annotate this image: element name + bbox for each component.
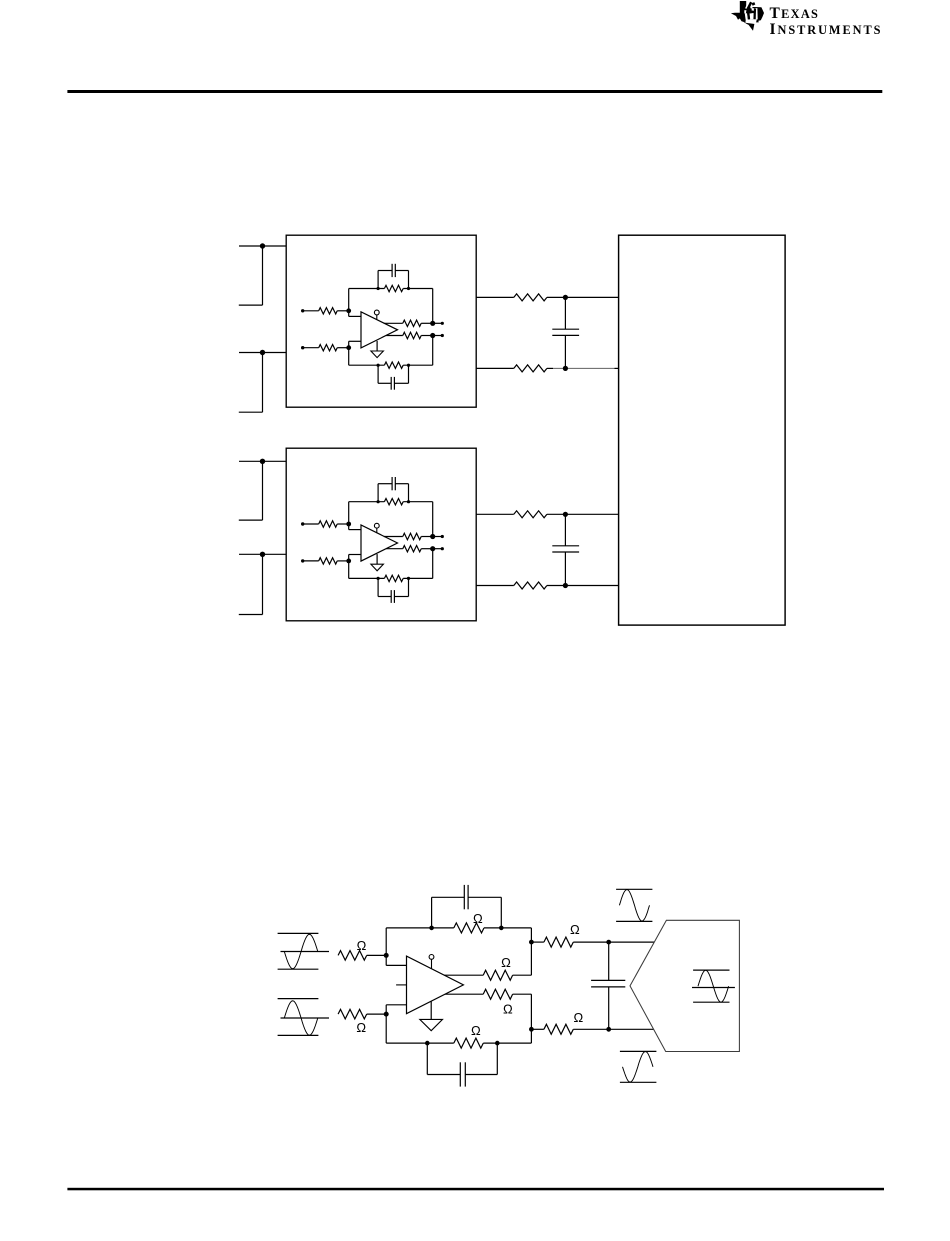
svg-text:Ω: Ω [501,955,511,970]
wire [386,1005,407,1014]
ADC block box U3 [619,235,786,625]
node: upper ADC input junction [606,940,654,945]
inverting input dash [396,984,406,986]
signal source VIN+ (sine symbol) [278,933,329,969]
wire (left rail) [385,928,387,1043]
feedback capacitor CF1 B (top) [378,477,408,502]
ground [371,554,384,571]
svg-text:TEXAS: TEXAS [770,5,820,22]
wire (right feedback rail) [432,502,434,579]
wire [349,502,362,530]
output resistor RO2 B (lower) [386,546,433,552]
ADC symbol (chevron block) [630,920,739,1051]
series resistor RS1 B (to ADC, upper) [476,511,618,518]
node: lower summing junction A [346,345,351,350]
signal source VIN- (sine symbol) [278,999,329,1036]
feedback capacitor CF1 A (top) [378,264,408,289]
svg-text:INSTRUMENTS: INSTRUMENTS [770,21,883,38]
node: upper output junction B [430,534,444,539]
power/enable pin circle [374,310,379,320]
wire [349,289,362,317]
wire [349,341,362,365]
node A upper ADC input [563,295,568,300]
op-amp U1 A (fully differential) [361,312,398,348]
node: upper output tap [529,940,534,945]
feedback resistor RF2 B (bottom) [349,575,433,581]
series resistor RS2 A (to ADC, lower) [476,365,618,372]
svg-text:Ω: Ω [473,911,483,926]
power/enable pin circle [374,523,379,533]
node B upper ADC input [563,512,568,517]
input terminal AM [239,350,286,412]
input terminal BP [239,459,286,521]
feedback resistor RF bottom with label [386,1023,531,1048]
logo: TI Texas-map icon [731,1,764,31]
output resistor RO1 A (upper) [384,320,433,326]
top rule [67,90,882,93]
op-amp A1 (fully differential) [407,956,464,1014]
feedback capacitor CF2 B (bottom) [378,578,408,603]
resistor RG2 B (lower input) [301,558,349,564]
wire (right feedback rail) [432,289,434,366]
series resistor RS lower with label [531,1010,608,1034]
node: lower output junction A [430,333,444,338]
wire [386,955,407,965]
node B lower ADC input [563,583,568,588]
power/enable pin circle [429,955,434,969]
svg-text:Ω: Ω [471,1023,481,1038]
node A lower ADC input [563,366,568,371]
shunt capacitor CS B [552,514,579,585]
svg-text:Ω: Ω [356,1020,366,1035]
node: lower output tap [529,1027,534,1032]
node: lower summing junction [384,1012,389,1017]
input terminal AP [239,243,286,305]
feedback capacitor CF2 A (bottom) [378,365,408,390]
wire (right rail) [530,928,532,1043]
svg-text:Ω: Ω [570,922,580,937]
op-amp U1 B (fully differential) [361,525,398,561]
series resistor RS1 A (to ADC, upper) [476,294,618,301]
feedback resistor RF1 A (top) [349,285,433,291]
node: upper output junction A [430,321,444,326]
feedback resistor RF1 B (top) [349,499,433,505]
input terminal BM [239,552,286,615]
output resistor lower with label [445,989,531,1016]
amplifier block box U_A [286,235,476,407]
node: upper summing junction B [346,522,351,527]
waveform icon: amplified sine below ADC [620,1051,657,1082]
output resistor RO1 B (upper) [384,533,433,539]
series resistor RS upper with label [531,922,608,947]
node: lower output junction B [430,546,444,551]
node: upper summing junction A [346,308,351,313]
svg-text:Ω: Ω [357,938,367,953]
shunt capacitor C (at ADC input) [591,942,625,1029]
series resistor RS2 B (to ADC, lower) [476,582,618,589]
node: lower ADC input junction [606,1027,653,1032]
bottom rule [67,1188,884,1191]
feedback resistor RF top with label [386,911,531,933]
node: upper summing junction [384,953,389,958]
input resistor RG lower with value label [338,1009,386,1035]
feedback capacitor CF bottom [427,1043,497,1087]
resistor RG1 B (upper input) [301,521,349,527]
feedback resistor RF2 A (bottom) [349,362,433,368]
feedback capacitor CF top [432,885,502,928]
resistor RG1 A (upper input) [301,308,349,314]
node: lower summing junction B [346,559,351,564]
svg-text:Ω: Ω [574,1010,584,1025]
svg-text:Ω: Ω [503,1002,513,1017]
output resistor upper with label [444,955,531,980]
waveform icon: sine inside ADC [692,970,735,1002]
wire [349,555,362,579]
resistor RG2 A (lower input) [301,345,349,351]
output resistor RO2 A (lower) [386,332,433,338]
shunt capacitor CS A [552,297,579,368]
ground [420,1001,443,1030]
waveform icon: amplified sine above ADC [616,889,652,921]
amplifier block box U_B [286,448,476,621]
input resistor RG upper with value label [338,938,386,960]
ground [371,341,384,358]
